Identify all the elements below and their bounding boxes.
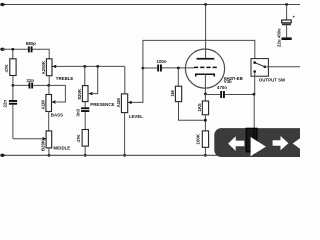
svg-text:B20K: B20K (40, 139, 45, 151)
svg-text:1M: 1M (170, 90, 175, 96)
wire 22u cap lead (286, 5, 288, 20)
svg-text:V3b: V3b (224, 79, 232, 84)
wire input (2, 48, 28, 50)
wire 3n3 to 47K (84, 112, 86, 130)
wire bottom ground rail (2, 154, 300, 156)
wire switch lower contact down (254, 72, 256, 95)
wire 22n to treble bottom node (33, 84, 49, 86)
node grid junction (177, 67, 180, 70)
capacitor 680p (26, 41, 36, 52)
switch OUTPUT SW box (251, 59, 286, 83)
svg-text:100K: 100K (195, 133, 200, 144)
wire input node down to 47K (12, 49, 14, 59)
node level ground junction (123, 154, 126, 157)
tube V3b 6N2P-EB triode (185, 49, 242, 94)
wire 47K bottom to node (12, 76, 14, 86)
resistor 47K (input) (4, 59, 16, 76)
potentiometer TREBLE A250K (41, 59, 73, 81)
svg-text:TREBLE: TREBLE (56, 76, 74, 81)
wire 1M bottom to cathode node (179, 102, 206, 121)
svg-text:3n3: 3n3 (76, 108, 81, 116)
wire cathode to 470n (205, 94, 220, 96)
svg-text:OUTPUT SW: OUTPUT SW (259, 77, 286, 82)
node left 22n junction (12, 84, 15, 87)
wire presence top lead (84, 66, 86, 85)
wire middle bottom to ground rail (48, 148, 50, 155)
wire bass wiper loop (49, 85, 66, 102)
potentiometer MIDDLE B20K (13, 131, 70, 151)
svg-text:47K: 47K (76, 134, 81, 143)
capacitor 22n vertical (2, 100, 17, 108)
wire level wiper up to 100n node (131, 68, 143, 102)
wire level top lead (124, 66, 126, 94)
svg-text:A1M: A1M (116, 98, 121, 108)
capacitor 470n (217, 85, 227, 98)
node presence ground junction (84, 154, 87, 157)
wire 470n to switch node (225, 94, 254, 96)
node 22u junction on HT rail (285, 3, 288, 6)
node 100n level junction (142, 67, 145, 70)
node middle ground junction (48, 154, 51, 157)
resistor 1K5 (197, 101, 209, 115)
capacitor C 22u 450v (277, 15, 296, 48)
wire 22n bottom to middle wiper (12, 105, 14, 139)
terminal input (0, 48, 3, 51)
wire 47K presence to ground (84, 146, 86, 155)
node 1M 1K5 junction (204, 119, 207, 122)
node 470n switch junction (253, 93, 256, 96)
resistor 47K (presence) (76, 130, 88, 147)
wire output to right edge (265, 66, 300, 68)
svg-text:A1M: A1M (41, 100, 46, 110)
overlay play square (246, 128, 257, 152)
potentiometer LEVEL A1M (116, 94, 143, 119)
node 100K ground junction (204, 154, 207, 157)
svg-text:680p: 680p (26, 41, 36, 46)
wire cathode to 1K5 (204, 94, 206, 101)
wire 1K5 bottom (204, 115, 206, 131)
overlay left arrow (228, 136, 244, 151)
svg-text:MIDDLE: MIDDLE (53, 146, 70, 151)
svg-text:LEVEL: LEVEL (129, 114, 143, 119)
svg-text:PRESENCE: PRESENCE (90, 102, 114, 107)
wire treble bottom (48, 76, 50, 86)
svg-text:+: + (293, 15, 296, 20)
svg-text:47K: 47K (4, 64, 9, 73)
potentiometer BASS A1M (41, 95, 64, 118)
wire node to 22n cap (13, 84, 29, 86)
svg-text:A250K: A250K (41, 60, 46, 74)
wire bass bottom to middle top (48, 112, 50, 131)
anode plate bar (197, 58, 215, 60)
wire 100K bottom to ground rail (204, 147, 206, 155)
svg-text:100n: 100n (157, 59, 167, 64)
wire top HT rail (2, 4, 300, 6)
resistor 1M (170, 86, 182, 101)
ground bar under 22u (282, 37, 292, 40)
node anode junction on HT rail (204, 3, 207, 6)
overlay play triangle (251, 137, 266, 156)
wire mid bus from treble wiper to level top (56, 65, 125, 67)
node input junction (11, 48, 14, 51)
potentiometer PRESENCE 820K (77, 66, 115, 107)
wire grid node down to 1M (177, 68, 179, 86)
cathode (196, 74, 215, 76)
node cathode junction (204, 93, 207, 96)
resistor 100K (195, 131, 208, 147)
svg-text:470n: 470n (217, 85, 227, 90)
terminal bottom-left (0, 154, 3, 157)
overlay partial arrow right edge (293, 138, 300, 148)
svg-text:BASS: BASS (51, 113, 63, 118)
node presence top (83, 65, 86, 68)
wire 100n to grid node (162, 67, 194, 69)
svg-text:22n: 22n (2, 100, 7, 108)
node treble bottom junction (47, 84, 50, 87)
wire over play square (253, 128, 255, 155)
capacitor 100n (157, 59, 167, 72)
capacitor 22n horizontal (27, 78, 35, 89)
svg-text:22u 450v: 22u 450v (277, 28, 282, 47)
wire level bottom to ground (124, 113, 126, 156)
svg-text:1K5: 1K5 (197, 103, 202, 112)
wire to 100n (143, 67, 157, 69)
wire 680p to treble top (33, 49, 50, 59)
wire anode lead (205, 5, 207, 59)
wire presence pot to 3n3 (84, 102, 86, 108)
svg-text:22n: 22n (27, 78, 35, 83)
terminal top-left (0, 3, 3, 6)
overlay right arrow (273, 136, 289, 150)
capacitor 3n3 (76, 107, 90, 116)
cathode lead (204, 74, 206, 94)
wire left branch 22n vertical (12, 85, 14, 100)
wire switch node down to ground rail (253, 95, 255, 156)
node presence wiper return (96, 65, 99, 68)
wire bass top (48, 85, 50, 94)
wire node up and right to switch (143, 40, 255, 68)
svg-text:820K: 820K (77, 88, 82, 99)
grid dashes (194, 66, 217, 68)
overlay navigation band (214, 128, 314, 157)
